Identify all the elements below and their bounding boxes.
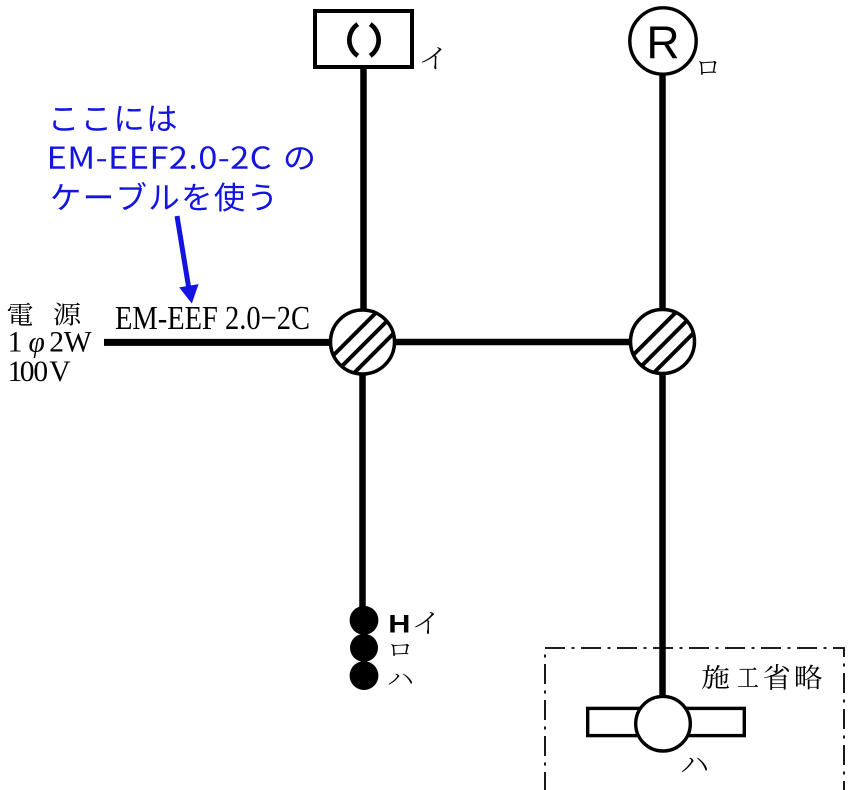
lamp fixture box イ bbox=[315, 11, 412, 67]
junction box J2 bbox=[617, 296, 712, 391]
svg-text:1φ2W: 1φ2W bbox=[8, 327, 92, 359]
svg-text:EM-EEF 2.0−2C: EM-EEF 2.0−2C bbox=[115, 300, 310, 337]
text 工 bbox=[738, 667, 758, 687]
wire lamp to junction J1 bbox=[360, 67, 367, 342]
svg-text:R: R bbox=[646, 17, 679, 69]
wire J1 down to switches bbox=[359, 342, 366, 607]
blue arrow bbox=[177, 216, 197, 302]
blue note line1 ここには bbox=[53, 106, 176, 131]
svg-text:H: H bbox=[388, 611, 410, 639]
text 省 bbox=[764, 664, 789, 690]
heater R ロ bbox=[630, 8, 696, 74]
wire J2 down to fan bbox=[659, 342, 666, 696]
dash-dot boundary 施工省略 bbox=[545, 648, 844, 790]
text 源 bbox=[54, 303, 80, 326]
label イ (lamp) bbox=[422, 47, 442, 69]
text 電 bbox=[8, 303, 33, 326]
ceiling fan ハ bbox=[588, 696, 745, 751]
wire power source to J1 bbox=[104, 339, 362, 346]
blue note line3 ケーブルを使う bbox=[52, 182, 272, 212]
blue note line2 EM-EEF2.0-2C bbox=[50, 146, 270, 169]
text 略 bbox=[796, 664, 822, 689]
svg-text:100V: 100V bbox=[8, 356, 71, 388]
junction box J1 bbox=[317, 296, 412, 391]
wire R to junction J2 bbox=[659, 74, 666, 342]
text 施 bbox=[702, 665, 729, 689]
blue note line2 の bbox=[286, 147, 313, 169]
label ロ (R) bbox=[699, 61, 717, 75]
switch label ロ bbox=[391, 644, 409, 656]
switch label ハ bbox=[389, 674, 412, 685]
switch dots bbox=[350, 606, 379, 690]
fan label ハ bbox=[682, 758, 707, 772]
switch label イ bbox=[415, 612, 434, 634]
wire J1 to J2 bbox=[362, 339, 663, 346]
